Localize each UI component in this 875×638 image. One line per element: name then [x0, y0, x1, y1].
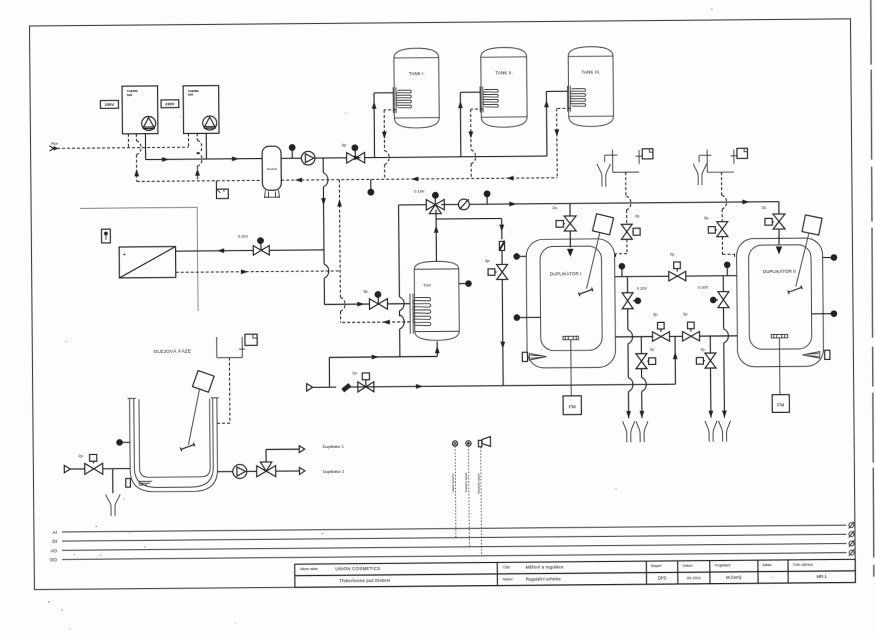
svg-text:TUV: TUV	[423, 283, 431, 288]
svg-text:50K: 50K	[127, 93, 133, 97]
svg-text:+: +	[123, 252, 126, 258]
sensor dots duplicator I	[513, 253, 541, 321]
boiler supply header	[146, 156, 263, 162]
svg-text:0.10V: 0.10V	[698, 284, 709, 289]
tank III return drop	[554, 108, 571, 178]
signal line 1	[454, 446, 457, 538]
label 230V for B2	[161, 100, 179, 108]
boiler B1 (THERM 50K)	[122, 86, 158, 134]
kettle bottom fitting	[126, 478, 152, 487]
svg-text:05.2011: 05.2011	[687, 575, 702, 580]
sensor dots duplicator II	[811, 254, 838, 317]
svg-text:3p.: 3p.	[363, 288, 368, 293]
cold water main line	[350, 382, 675, 390]
valve 0.10V jacket drain right	[698, 276, 729, 308]
gas drop to B1	[127, 134, 129, 148]
TUV cold feed branch	[329, 341, 440, 387]
label 230V for B1	[100, 100, 118, 108]
label signal 1	[451, 473, 455, 493]
oil pump P2	[233, 464, 247, 478]
bus line DO	[50, 549, 854, 563]
valve 2p water fill I	[621, 213, 640, 239]
svg-text:2p.: 2p.	[683, 311, 688, 316]
svg-text:3p.: 3p.	[342, 142, 347, 147]
jacket fill riser	[673, 336, 678, 384]
level box assembly oil kettle	[217, 334, 258, 358]
tank II heating coil	[480, 86, 498, 112]
valve 2p cold inlet	[352, 370, 374, 392]
duplicator I side nozzle	[522, 352, 546, 361]
signal line 2	[467, 446, 470, 547]
svg-text:DUPLIKÁTOR II: DUPLIKÁTOR II	[763, 269, 796, 274]
water fill piping I	[605, 149, 643, 172]
tank I supply riser	[372, 93, 394, 158]
svg-text:AI: AI	[53, 530, 57, 535]
svg-text:0.10V: 0.10V	[414, 188, 425, 193]
horn symbol	[478, 437, 490, 447]
svg-text:OLEJOVÁ FÁZE: OLEJOVÁ FÁZE	[153, 347, 191, 353]
water fill piping II	[699, 149, 737, 172]
duplicator II side nozzle	[802, 350, 830, 359]
B1 supply drop	[144, 134, 146, 160]
gas drop to B2	[187, 133, 189, 147]
svg-text:FM: FM	[777, 402, 784, 408]
oil inlet line	[103, 468, 130, 470]
TUV coil return stub	[341, 319, 411, 324]
svg-text:M.Černý: M.Černý	[726, 575, 742, 580]
TUV outlet riser	[434, 210, 439, 262]
valve 2p water fill II	[704, 215, 728, 237]
svg-text:Název:: Název:	[503, 577, 514, 581]
svg-text:Číslo výkresu: Číslo výkresu	[793, 562, 814, 567]
sensor dot on dup supply	[484, 190, 491, 204]
outdoor sensor box on return	[216, 181, 228, 199]
sensor dot on return header	[367, 179, 374, 195]
wire: pump to valve	[247, 470, 257, 472]
valve 2p duplicator I fill	[552, 203, 576, 257]
svg-text:Část:: Část:	[503, 564, 511, 569]
tank TANK III.	[568, 47, 613, 127]
level controller box II	[737, 148, 748, 158]
supply header from anuloid	[281, 154, 547, 161]
duplicator II bottom fitting	[771, 334, 788, 338]
svg-text:2p.: 2p.	[485, 258, 490, 263]
three-way valve 0.10V mixing	[414, 188, 444, 214]
svg-text:230V: 230V	[105, 102, 115, 107]
agitator motor M2	[787, 215, 823, 294]
check valve cold inlet	[341, 383, 351, 392]
jacket interconnect line	[615, 276, 737, 277]
valve 2p drain right	[696, 336, 716, 418]
air-gap funnel II	[693, 164, 706, 186]
svg-text:MR-1: MR-1	[817, 574, 828, 579]
duplicator I bottom fitting	[563, 336, 579, 340]
svg-text:0.10V: 0.10V	[637, 286, 648, 291]
sight glass	[458, 199, 469, 210]
svg-text:AO: AO	[50, 548, 57, 553]
jacket fill line	[615, 336, 737, 337]
exchanger return line	[176, 268, 340, 274]
label OLEJOVA FAZE	[153, 347, 191, 353]
svg-text:TANK II.: TANK II.	[495, 70, 513, 75]
svg-text:2p.: 2p.	[670, 251, 675, 256]
valve 2p oil inlet	[78, 453, 102, 475]
tank II return drop	[468, 109, 483, 179]
svg-text:2p.: 2p.	[653, 312, 658, 317]
supply line to duplicators	[441, 199, 779, 207]
tank III supply riser	[544, 91, 568, 156]
svg-text:Zakáz.: Zakáz.	[762, 563, 772, 567]
hydraulic separator Anuloid	[262, 146, 281, 197]
tank II supply riser	[458, 92, 481, 157]
svg-text:2p.: 2p.	[704, 215, 709, 220]
valve 2p duplicator II fill	[762, 202, 786, 255]
hot water tank TUV	[414, 261, 459, 340]
svg-text:TANK I.: TANK I.	[409, 71, 425, 76]
signal line 3	[480, 447, 483, 556]
svg-text:Datum: Datum	[683, 564, 693, 568]
drain line to FM I	[570, 340, 572, 396]
control line to fill valve I	[626, 172, 631, 224]
vessel DUPLIKATOR I inner	[540, 246, 602, 351]
tank I heating coil	[393, 87, 411, 113]
svg-text:TANK III.: TANK III.	[582, 69, 601, 74]
svg-text:2p.: 2p.	[352, 370, 357, 375]
wire: mix branch down to water line	[500, 250, 506, 385]
svg-text:2p.: 2p.	[650, 346, 655, 351]
bus line AO	[50, 540, 854, 554]
svg-text:0.10V: 0.10V	[238, 233, 249, 238]
svg-text:Projektant:: Projektant:	[715, 563, 731, 567]
air-gap funnel I	[597, 164, 610, 187]
svg-text:Akustický signál: Akustický signál	[476, 473, 480, 494]
oil phase kettle	[128, 398, 220, 492]
svg-text:Stupeň: Stupeň	[651, 564, 662, 568]
svg-text:2p.: 2p.	[78, 453, 83, 458]
valve 2p drain left	[636, 337, 656, 419]
svg-text:DUPLIKÁTOR I: DUPLIKÁTOR I	[550, 271, 582, 276]
svg-text:DI: DI	[52, 539, 57, 544]
sensor dot on supply after anuloid	[289, 144, 296, 158]
line to Duplikator 2	[276, 467, 345, 475]
right 0.10V drain drop	[721, 308, 729, 418]
left 0.10V drain drop	[625, 309, 633, 419]
boiler return header	[137, 180, 263, 181]
wire: hot drop line x322	[321, 158, 370, 307]
svg-text:UNION COSMETICS: UNION COSMETICS	[335, 566, 380, 571]
svg-text:FM: FM	[569, 404, 576, 410]
valve 2p interconnect	[669, 251, 686, 281]
bus line AI	[53, 522, 855, 536]
TUV coil	[410, 294, 431, 334]
line to Duplikator 1	[266, 444, 345, 462]
svg-text:230V: 230V	[165, 101, 175, 106]
drain funnels left	[623, 421, 648, 442]
flow meter FM II	[772, 395, 789, 413]
check valve mix branch	[499, 239, 504, 252]
wire: return riser x338	[337, 180, 345, 323]
flow meter FM I	[563, 396, 581, 415]
svg-text:Hlásič poruchy: Hlásič poruchy	[451, 473, 455, 493]
svg-text:Anuloid: Anuloid	[267, 167, 278, 171]
level controller box I	[642, 149, 653, 159]
drain line to FM II	[778, 338, 780, 395]
gas supply line Plyn	[50, 141, 189, 151]
valve 3p TUV coil	[363, 288, 387, 309]
control line to kettle	[217, 358, 230, 424]
svg-text:2p.: 2p.	[552, 205, 557, 210]
valve 2p jacket fill left	[652, 312, 669, 342]
heat exchanger	[119, 247, 176, 278]
svg-text:50K: 50K	[188, 93, 194, 97]
svg-text:Plyn: Plyn	[51, 142, 58, 146]
svg-text:Regulační schéma: Regulační schéma	[526, 576, 561, 581]
vessel DUPLIKATOR II jacket	[736, 238, 823, 367]
vessel DUPLIKATOR I jacket	[526, 239, 616, 368]
tank TANK I.	[394, 48, 439, 128]
tank I return drop	[382, 110, 397, 180]
kettle drain tee and funnel	[105, 469, 120, 516]
fault indicator symbol 1	[452, 441, 457, 446]
exchanger supply line	[176, 247, 324, 253]
cold water inlet arrow	[307, 383, 337, 391]
svg-text:2p.: 2p.	[635, 213, 640, 218]
svg-text:2p.: 2p.	[762, 205, 767, 210]
sensor dot TUV	[459, 280, 472, 287]
return header to anuloid	[281, 175, 557, 182]
fault indicator symbol 2	[466, 441, 471, 446]
title block	[295, 559, 856, 587]
B1 return riser	[134, 134, 141, 182]
outdoor temperature sensor box	[101, 229, 110, 243]
svg-text:Duplikátor 1: Duplikátor 1	[323, 444, 345, 449]
drain funnels right	[705, 421, 731, 442]
valve 0.10V jacket drain left	[622, 276, 648, 308]
label signal 3	[476, 473, 480, 494]
svg-text:Název akce:: Název akce:	[300, 567, 318, 571]
B2 supply drop	[205, 133, 207, 159]
three-way valve 3p on supply	[342, 142, 365, 163]
wire: fill I to jacket	[615, 239, 627, 257]
speckles	[43, 8, 718, 629]
svg-text:DPS: DPS	[658, 575, 667, 580]
tank TANK II.	[481, 47, 527, 127]
wire: paper right edge	[869, 0, 875, 577]
sensor dot oil kettle	[116, 439, 130, 446]
kettle outlet line	[217, 471, 232, 473]
TUV coil supply stub	[387, 303, 410, 305]
sensor dots interconnect	[619, 261, 731, 276]
agitator motor M1	[578, 214, 614, 297]
wire: room boundary line	[80, 207, 198, 312]
boiler B2 (THERM 50K)	[183, 86, 219, 134]
svg-text:Světelný signál: Světelný signál	[464, 472, 468, 492]
three-way valve oil distribution	[257, 462, 276, 477]
svg-text:Duplikátor 2: Duplikátor 2	[323, 469, 345, 474]
oil inlet arrow	[64, 465, 85, 473]
svg-text:2p.: 2p.	[700, 347, 705, 352]
tank III heating coil	[567, 86, 585, 112]
vessel DUPLIKATOR II inner	[749, 245, 812, 350]
agitator motor M3	[180, 370, 215, 451]
svg-text:Třebechovice pod Orebem: Třebechovice pod Orebem	[339, 578, 390, 583]
valve 2p jacket fill right	[682, 311, 699, 341]
bus line DI	[52, 531, 854, 545]
mixing leg to cold feed	[399, 205, 428, 357]
label signal 2	[464, 472, 468, 492]
mix branch top corner	[436, 218, 504, 239]
valve 0.10V exchanger	[238, 233, 269, 255]
wire: fill II to jacket	[722, 237, 734, 257]
svg-text:DO: DO	[50, 557, 57, 562]
B2 return riser	[195, 133, 202, 181]
valve 2p mix branch	[485, 258, 508, 280]
circulation pump P1	[301, 151, 315, 165]
svg-text:Měření a regulace: Měření a regulace	[526, 565, 564, 570]
control line to fill valve II	[722, 172, 727, 222]
